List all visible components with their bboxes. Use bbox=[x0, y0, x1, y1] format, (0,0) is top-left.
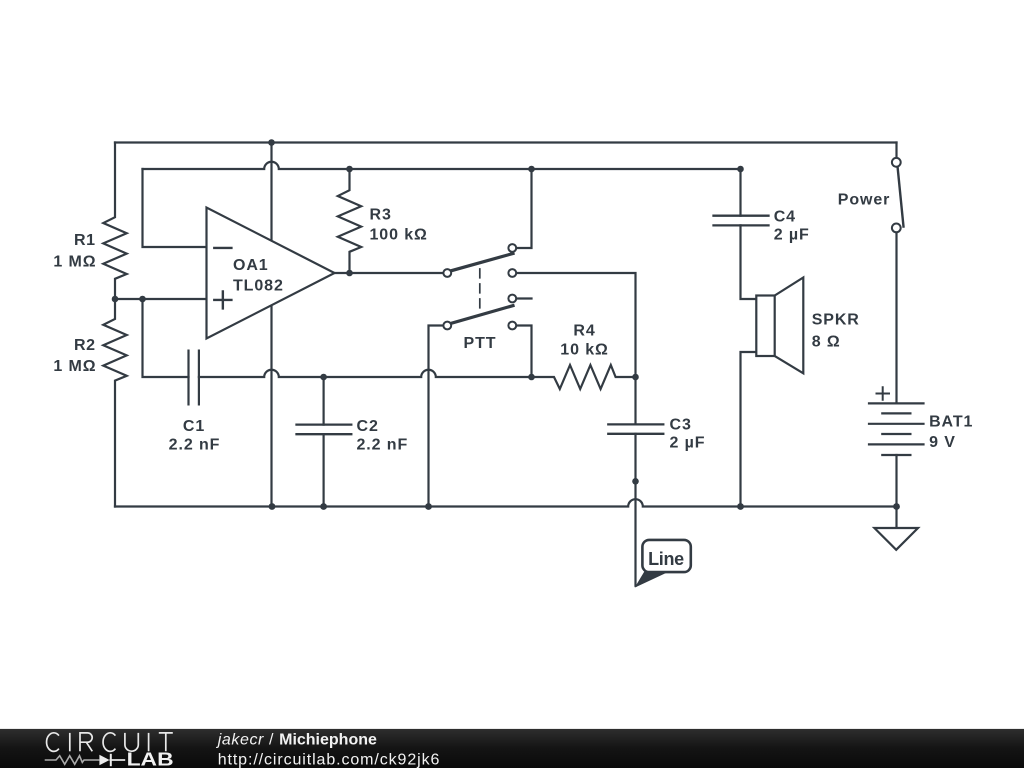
svg-text:Line: Line bbox=[648, 549, 684, 569]
svg-text:BAT1: BAT1 bbox=[929, 413, 973, 430]
svg-text:OA1: OA1 bbox=[233, 257, 269, 274]
svg-text:8 Ω: 8 Ω bbox=[812, 333, 841, 350]
svg-text:PTT: PTT bbox=[464, 335, 497, 352]
svg-text:100 kΩ: 100 kΩ bbox=[370, 227, 428, 244]
svg-text:C4: C4 bbox=[774, 208, 796, 225]
svg-text:2 µF: 2 µF bbox=[670, 435, 706, 452]
svg-text:Power: Power bbox=[838, 192, 891, 209]
svg-text:jakecr / Michiephone: jakecr / Michiephone bbox=[216, 732, 377, 749]
svg-text:SPKR: SPKR bbox=[812, 312, 860, 329]
svg-text:LAB: LAB bbox=[127, 749, 174, 768]
svg-text:9 V: 9 V bbox=[929, 434, 956, 451]
svg-text:R3: R3 bbox=[370, 207, 392, 224]
svg-text:2.2 nF: 2.2 nF bbox=[357, 437, 409, 454]
svg-text:2 µF: 2 µF bbox=[774, 226, 810, 243]
svg-text:R2: R2 bbox=[74, 337, 95, 354]
svg-text:http://circuitlab.com/ck92jk6: http://circuitlab.com/ck92jk6 bbox=[218, 752, 441, 768]
svg-text:2.2 nF: 2.2 nF bbox=[169, 437, 221, 454]
svg-text:R4: R4 bbox=[573, 322, 595, 339]
svg-text:C2: C2 bbox=[357, 418, 379, 435]
svg-text:1 MΩ: 1 MΩ bbox=[53, 358, 96, 375]
svg-text:R1: R1 bbox=[74, 232, 95, 249]
svg-text:10 kΩ: 10 kΩ bbox=[560, 342, 608, 359]
svg-text:C3: C3 bbox=[670, 417, 692, 434]
svg-text:1 MΩ: 1 MΩ bbox=[53, 254, 96, 271]
svg-text:TL082: TL082 bbox=[233, 277, 284, 294]
svg-text:C1: C1 bbox=[183, 418, 205, 435]
